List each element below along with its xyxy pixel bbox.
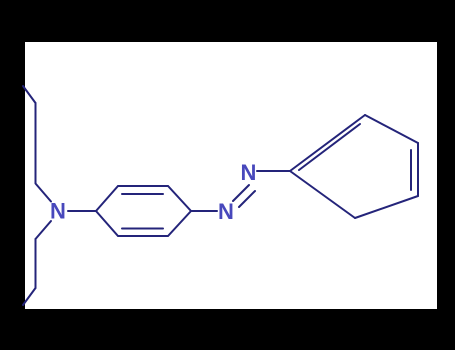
svg-text:N: N — [241, 160, 257, 185]
right group edge D-E — [355, 196, 418, 218]
benzene ring 1 hexagon — [96, 186, 191, 236]
upper propyl vertical bond — [35, 103, 37, 183]
right group edge B-C — [365, 115, 418, 143]
right group edge C-D — [417, 143, 419, 196]
bond N to ring — [68, 210, 96, 212]
lower propyl diagonal bond from N — [36, 221, 52, 239]
right group double bond inner A-B — [299, 124, 360, 170]
lower propyl vertical bond — [35, 239, 37, 288]
upper propyl stub CH3 — [23, 86, 36, 103]
bond ring to azo N1 — [191, 210, 217, 212]
white drawing area — [25, 42, 437, 309]
right group edge A-B — [290, 115, 365, 171]
lower propyl stub CH3 — [23, 288, 36, 305]
ring 1 inner double bond top — [122, 193, 163, 195]
svg-text:N: N — [218, 199, 234, 224]
azo double bond line 2 — [239, 191, 255, 207]
right group double bond inner C-D — [410, 150, 412, 190]
right group edge E-A — [290, 171, 355, 218]
bond azo N2 to right group — [257, 170, 290, 172]
upper propyl diagonal bond to N — [36, 184, 52, 202]
azo double bond line 1 — [233, 185, 249, 201]
svg-text:N: N — [50, 199, 66, 224]
ring 1 inner double bond bottom — [122, 228, 163, 230]
